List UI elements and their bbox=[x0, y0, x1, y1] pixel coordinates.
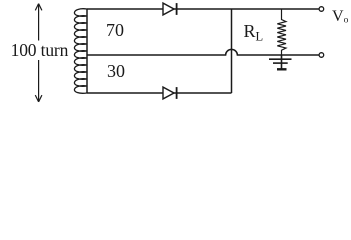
dimension arrow upper (100 turn) bbox=[35, 4, 42, 41]
svg-text:Vo: Vo bbox=[332, 8, 349, 26]
diode D1 bbox=[163, 3, 177, 15]
diode D2 bbox=[163, 87, 177, 99]
terminal Vo- bbox=[319, 53, 324, 58]
wire bottom rail from winding bbox=[87, 92, 232, 94]
terminal Vo+ bbox=[319, 7, 324, 12]
wire top rail bbox=[87, 8, 319, 10]
resistor RL bbox=[277, 9, 286, 55]
ground bbox=[269, 55, 292, 69]
dimension arrow lower (100 turn) bbox=[35, 60, 42, 102]
transformer tapped winding T1 bbox=[74, 9, 87, 94]
svg-text:30: 30 bbox=[107, 61, 125, 81]
svg-text:100 turn: 100 turn bbox=[11, 40, 69, 60]
wire vertical from D2 to top rail bbox=[231, 9, 233, 93]
wire center tap with crossover hop bbox=[87, 49, 319, 55]
svg-text:RL: RL bbox=[244, 21, 264, 44]
svg-text:70: 70 bbox=[106, 20, 124, 40]
